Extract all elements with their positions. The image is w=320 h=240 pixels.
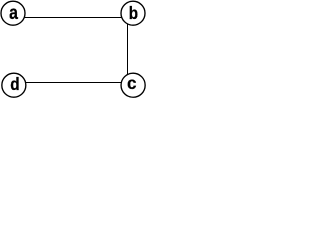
node d circle: [2, 73, 26, 97]
node a circle: [1, 1, 25, 25]
svg-text:c: c: [127, 72, 137, 93]
svg-text:d: d: [10, 74, 19, 94]
svg-text:a: a: [9, 1, 19, 23]
node c circle: [121, 73, 145, 97]
svg-text:b: b: [129, 3, 138, 23]
wire edge b-c: [127, 18, 129, 80]
background: [0, 0, 149, 100]
node b circle: [121, 1, 145, 25]
graph diagram: nodes a,b,c,d with edges a-b, b-c, d-c: [0, 0, 149, 100]
wire edge a-b: [18, 17, 128, 19]
wire edge d-c: [19, 82, 128, 84]
